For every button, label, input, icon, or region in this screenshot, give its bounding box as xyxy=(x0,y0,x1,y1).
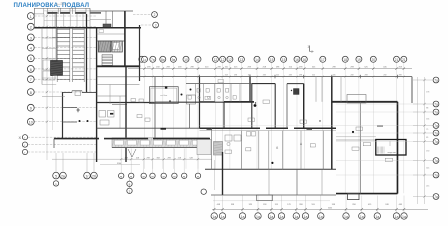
stair rail small xyxy=(101,55,103,67)
upper extension inner wall xyxy=(105,11,107,28)
svg-text:14: 14 xyxy=(255,58,259,62)
axis leader line left 4 xyxy=(34,47,96,49)
corridor top wall b xyxy=(224,101,254,103)
svg-text:150: 150 xyxy=(61,3,64,5)
axis circle left 8 xyxy=(27,89,34,96)
tag box j xyxy=(131,99,136,102)
svg-text:525: 525 xyxy=(312,74,315,76)
wc box 4 xyxy=(217,89,220,93)
bottom dim tick xyxy=(270,208,272,210)
top dim tick xyxy=(344,67,346,69)
right leader xyxy=(413,111,433,113)
junction verts xyxy=(195,84,197,103)
top dim tick xyxy=(185,67,187,69)
svg-text:5: 5 xyxy=(55,174,57,178)
svg-text:7а: 7а xyxy=(434,132,438,136)
svg-text:21: 21 xyxy=(395,58,399,62)
svg-text:215: 215 xyxy=(426,185,429,187)
sub axis vertical xyxy=(129,179,131,189)
wall x331.8 xyxy=(331,77,333,170)
left room dividers xyxy=(42,37,56,39)
left wing top edge xyxy=(34,7,90,9)
bottom dim tick xyxy=(257,208,259,210)
axis circle top 17а xyxy=(320,56,326,62)
left dim tick xyxy=(46,57,48,59)
left-bottom extension xyxy=(152,149,154,173)
svg-text:7а: 7а xyxy=(151,58,155,62)
wall x303.7 xyxy=(303,84,305,129)
axis circle left 9 xyxy=(27,104,34,111)
axis leader line left 10 xyxy=(34,121,96,123)
left dim tick xyxy=(46,68,48,70)
top band wall segment 3 xyxy=(76,12,87,14)
left wing vert x110 xyxy=(109,85,111,105)
left wing vert x120 xyxy=(119,96,121,128)
wc fixture 1 xyxy=(225,135,232,141)
svg-text:7а: 7а xyxy=(434,103,438,107)
top dim tick xyxy=(322,67,324,69)
axis circle top 12а xyxy=(212,56,218,62)
corridor bottom wall xyxy=(200,127,261,129)
right dim chain 1 xyxy=(417,77,419,204)
bottom extension line xyxy=(305,196,307,213)
svg-text:м: м xyxy=(120,174,122,178)
axis circle bottom xyxy=(359,213,365,219)
dark dot west xyxy=(79,120,81,122)
black bar fixture xyxy=(110,113,113,115)
bottom extension line xyxy=(242,196,244,213)
room block 1 right xyxy=(274,84,276,129)
axis circle top 21б xyxy=(401,56,407,62)
corridor threshold 3 xyxy=(307,128,313,130)
axis leader line left small 2 xyxy=(28,144,97,146)
grid extension line x=241.4 xyxy=(240,63,242,169)
wc circle 1 xyxy=(198,96,200,98)
grid extension line x=215.4 xyxy=(214,63,216,169)
bottom extension line xyxy=(320,196,322,213)
bottom dim tick xyxy=(221,208,223,210)
top dim tick xyxy=(395,67,397,69)
axis circle pair B2 xyxy=(91,172,98,179)
left wing mid divider y76.8 xyxy=(97,76,140,78)
right block bottom xyxy=(336,193,398,195)
top dim tick xyxy=(162,67,164,69)
machine room rect xyxy=(376,140,406,156)
svg-text:3460: 3460 xyxy=(328,207,332,209)
top-left small dim xyxy=(57,3,67,5)
svg-text:258: 258 xyxy=(383,74,386,76)
left dim tick xyxy=(46,78,48,80)
wall x189.5 mid xyxy=(189,104,191,128)
svg-text:218: 218 xyxy=(178,157,181,159)
axis circle left 5 xyxy=(27,55,34,62)
big room inner border xyxy=(151,88,177,102)
left dim tick xyxy=(46,36,48,38)
wall x224 upper xyxy=(223,102,225,128)
room block 2 top xyxy=(287,83,304,85)
gray room 2 hatch xyxy=(112,41,115,52)
bottom extension line xyxy=(295,196,297,213)
svg-text:1а: 1а xyxy=(294,215,298,219)
axis circle left 2 xyxy=(27,23,34,30)
svg-text:1а: 1а xyxy=(304,215,308,219)
top dim tick xyxy=(270,67,272,69)
svg-text:1а: 1а xyxy=(256,215,260,219)
left-bottom dim tick xyxy=(183,158,185,160)
right dim tick xyxy=(423,103,425,105)
small room box xyxy=(187,95,196,104)
svg-text:9: 9 xyxy=(30,107,32,111)
wc box 3 xyxy=(206,89,209,93)
corridor top wall c xyxy=(332,101,398,103)
axis circle top 12б xyxy=(220,56,226,62)
axis leader line left 8 xyxy=(34,91,96,93)
svg-text:150: 150 xyxy=(248,74,251,76)
bottom extension line xyxy=(270,196,272,213)
axis circle bottom xyxy=(211,213,217,219)
svg-text:7а: 7а xyxy=(434,79,438,83)
axis leader line left 6 xyxy=(34,68,96,70)
axis circle right xyxy=(433,77,439,83)
axis circle bottom xyxy=(239,213,245,219)
bottom extension line xyxy=(403,196,405,213)
tag box d xyxy=(225,150,232,153)
left-bottom extension xyxy=(120,149,122,173)
left-bottom extension xyxy=(183,149,185,173)
top band divider xyxy=(47,8,49,14)
left rooms wall xyxy=(41,28,43,85)
wall x62.5 lower xyxy=(62,92,64,139)
grid extension line x=322.8 xyxy=(322,63,324,169)
svg-text:7а: 7а xyxy=(434,111,438,115)
left wing divider y84.5 xyxy=(97,84,140,86)
lower strip verts xyxy=(268,169,270,195)
tiny marks corridor xyxy=(255,102,256,103)
svg-text:298: 298 xyxy=(399,74,402,76)
svg-text:м: м xyxy=(197,174,199,178)
gray room 1 xyxy=(98,41,111,52)
svg-text:1а: 1а xyxy=(360,215,364,219)
left dim tick xyxy=(46,107,48,109)
axis leader line left 1 xyxy=(34,15,96,17)
grid extension line x=345.2 xyxy=(344,63,346,194)
left dim tick xyxy=(46,26,48,28)
svg-text:м: м xyxy=(163,174,165,178)
right leader xyxy=(413,141,433,143)
room dividers lower xyxy=(241,131,243,170)
svg-text:12: 12 xyxy=(228,58,232,62)
tag box a xyxy=(248,118,255,121)
stair band A rail xyxy=(56,28,58,82)
axis circle top 14а xyxy=(254,56,260,62)
svg-text:17: 17 xyxy=(321,58,325,62)
small light rect top xyxy=(347,95,366,104)
axis circle bottom xyxy=(219,213,225,219)
left-bottom dim line xyxy=(52,158,212,160)
upper cells verts right xyxy=(315,77,317,102)
axis circle left small 3 xyxy=(22,149,27,154)
wc circle 4 xyxy=(226,96,228,98)
right dim tick xyxy=(423,79,425,81)
svg-text:м: м xyxy=(173,174,175,178)
bottom dim tick xyxy=(280,208,282,210)
axis circle right xyxy=(433,194,439,200)
bottom dim tick xyxy=(395,208,397,210)
svg-text:18: 18 xyxy=(343,58,347,62)
top dim tick xyxy=(358,67,360,69)
axis circle left-bottom xyxy=(161,173,166,178)
svg-text:358: 358 xyxy=(157,157,160,159)
right leader xyxy=(413,125,433,127)
junction mid wall y102.2 xyxy=(155,101,254,103)
tag box h xyxy=(137,115,142,118)
big room outline xyxy=(150,87,179,104)
tag box b xyxy=(300,120,307,123)
small box mid-left xyxy=(75,91,81,96)
wall x155 xyxy=(154,77,156,139)
right dim tick xyxy=(423,159,425,161)
top dim tick xyxy=(256,67,258,69)
svg-text:20: 20 xyxy=(371,58,375,62)
section mark xyxy=(309,46,311,52)
axis circle top 1c-left xyxy=(139,56,145,62)
grid extension line x=198 xyxy=(197,63,199,169)
top cells mid line xyxy=(44,10,90,12)
axis circle top 11а xyxy=(195,56,201,62)
axis circle right xyxy=(433,158,439,164)
grid extension line x=144.5 xyxy=(144,63,146,169)
bottom extension line xyxy=(213,196,215,213)
svg-text:4: 4 xyxy=(30,46,32,50)
svg-text:75: 75 xyxy=(426,129,428,131)
room block 1 top xyxy=(252,83,275,85)
wc box 2 xyxy=(197,89,200,93)
notch box xyxy=(257,195,273,201)
left-bottom dim tick xyxy=(130,158,132,160)
level triangle 1 xyxy=(276,147,278,149)
top dim tick xyxy=(240,67,242,69)
svg-text:3: 3 xyxy=(30,36,32,40)
svg-text:7а: 7а xyxy=(434,159,438,163)
axis circle top 10а xyxy=(183,56,189,62)
left room divider y96b xyxy=(42,96,65,98)
left dim tick xyxy=(46,91,48,93)
bottom dim tick xyxy=(345,208,347,210)
svg-text:21: 21 xyxy=(402,58,406,62)
top dim tick xyxy=(403,67,405,69)
axis circle bottom xyxy=(318,213,324,219)
axis circle bottom xyxy=(255,213,261,219)
wc box 1 xyxy=(188,96,191,100)
cluster ticks xyxy=(55,153,57,173)
axis circle top 20а xyxy=(370,56,376,62)
left wing wall y102.5 xyxy=(97,102,155,104)
dark hatched block xyxy=(51,61,63,76)
axis leader line left 3 xyxy=(34,36,96,38)
left dim tick xyxy=(46,121,48,123)
axis circle left 7 xyxy=(27,76,34,83)
right leader xyxy=(413,103,433,105)
h-line y140 right xyxy=(336,139,376,141)
h-line y137 right xyxy=(336,136,376,138)
corridor threshold 1 xyxy=(161,128,167,130)
svg-text:1а: 1а xyxy=(221,215,225,219)
svg-text:м: м xyxy=(183,174,185,178)
axis circle right xyxy=(433,139,439,145)
axis circle right xyxy=(433,109,439,115)
axis circle left-bottom xyxy=(150,173,155,178)
stair band B rail xyxy=(72,28,74,82)
axis circle pair B1 xyxy=(84,172,91,179)
bottom dim line faint xyxy=(213,200,330,202)
room tag 139 xyxy=(385,158,392,161)
dark dot x87 xyxy=(87,120,89,122)
grid extension line x=373.3 xyxy=(372,63,374,194)
svg-text:12: 12 xyxy=(214,58,218,62)
axis circle left-bottom xyxy=(195,173,200,178)
gray room 2 xyxy=(112,41,123,52)
svg-text:1а: 1а xyxy=(402,215,406,219)
grid extension line x=152.8 xyxy=(152,63,154,169)
dot left of room xyxy=(165,86,167,88)
right dim tick xyxy=(423,174,425,176)
axis leader line left small 3 xyxy=(28,151,97,153)
left edge upper xyxy=(33,8,35,27)
left-bottom dim tick xyxy=(173,158,175,160)
axis circle top 15б xyxy=(281,56,287,62)
top dim tick xyxy=(221,67,223,69)
door swing zigzag xyxy=(128,149,132,157)
axis circle bottom xyxy=(401,213,407,219)
axis circle top 12в xyxy=(227,56,233,62)
svg-text:16: 16 xyxy=(295,58,299,62)
axis circle left-bottom xyxy=(119,173,124,178)
svg-text:2: 2 xyxy=(154,13,156,17)
left small room a xyxy=(43,60,55,70)
axis circle top 7а xyxy=(150,56,156,62)
axis circle top 21а xyxy=(394,56,400,62)
room tag mid xyxy=(352,147,359,150)
axis circle bottom xyxy=(393,213,399,219)
svg-text:7: 7 xyxy=(30,78,32,82)
leader to circle 3r xyxy=(141,24,152,26)
room tag 138 xyxy=(363,143,370,146)
small fixture b xyxy=(108,111,115,118)
bottom extension line xyxy=(361,196,363,213)
dot right of room xyxy=(181,94,183,96)
left dim chain line xyxy=(46,11,48,160)
axis circle right xyxy=(433,130,439,136)
axis leader line left 2 xyxy=(34,26,96,28)
junction corner hatch lines xyxy=(214,142,223,144)
axis circle left-bottom xyxy=(172,173,177,178)
upper extension top edge xyxy=(90,10,133,12)
svg-text:7а: 7а xyxy=(434,140,438,144)
west stub y122 xyxy=(63,121,78,123)
svg-text:10: 10 xyxy=(29,121,33,125)
upper small dark box xyxy=(103,24,111,27)
corridor bottom wall thin xyxy=(200,130,337,132)
svg-text:298: 298 xyxy=(147,157,150,159)
svg-text:445: 445 xyxy=(333,74,336,76)
axis circle left small 2 xyxy=(22,142,27,147)
machine room stem xyxy=(389,141,391,146)
left-bottom dim tick xyxy=(151,158,153,160)
svg-text:г: г xyxy=(24,150,25,154)
axis leader line left 5 xyxy=(34,57,96,59)
svg-text:м: м xyxy=(151,174,153,178)
svg-text:2: 2 xyxy=(30,26,32,30)
upper room tiny box xyxy=(99,30,104,33)
top band wall segment 4 xyxy=(90,12,101,14)
left wing divider y96 xyxy=(97,95,126,97)
bottom dim tick xyxy=(213,208,215,210)
svg-text:2б: 2б xyxy=(92,174,96,178)
top dim tick xyxy=(303,67,305,69)
axis circle left-bottom xyxy=(182,173,187,178)
corridor threshold 2 xyxy=(207,128,213,130)
left wing corridor wall y128 xyxy=(97,127,200,129)
west stub y107.5 xyxy=(63,107,78,109)
svg-text:418: 418 xyxy=(136,157,139,159)
svg-text:85: 85 xyxy=(426,137,428,139)
top band wall segment 2 xyxy=(61,12,71,14)
grid extension line x=297 xyxy=(296,63,298,169)
left-bottom dim tick xyxy=(197,158,199,160)
axis circle bottom xyxy=(302,213,308,219)
axis circle top 1c xyxy=(142,56,148,62)
left-bottom extension xyxy=(173,149,175,173)
fixture cluster 2 xyxy=(247,132,251,137)
svg-text:208: 208 xyxy=(351,74,354,76)
axis circle left 3 xyxy=(27,34,34,41)
junction corner room xyxy=(197,139,211,154)
axis circle right-of-top 2 xyxy=(152,12,158,18)
tag above wall a xyxy=(205,96,211,99)
top dim tick xyxy=(372,67,374,69)
axis circle left-bottom xyxy=(129,173,134,178)
top band wall segment 1 xyxy=(48,12,58,14)
wc box 5 xyxy=(226,89,229,93)
tag box k xyxy=(139,99,144,102)
svg-text:16: 16 xyxy=(302,58,306,62)
tag box g xyxy=(246,148,251,151)
bottom dim tick xyxy=(295,208,297,210)
axis circle pair A2 xyxy=(60,172,67,179)
right dim tick xyxy=(423,132,425,134)
svg-text:190: 190 xyxy=(426,151,429,153)
dark dot corridor xyxy=(271,162,273,164)
axis circle left small 1 xyxy=(22,135,27,140)
dark dot right block xyxy=(352,131,354,133)
axis circle top 8а xyxy=(160,56,166,62)
axis leader line left small 1 xyxy=(28,136,97,138)
dark dot corridor mid xyxy=(254,104,257,107)
axis circle right-of-top 3 xyxy=(153,22,159,28)
wing top edge xyxy=(140,76,412,78)
left-bottom extension xyxy=(197,149,199,173)
small fixture a xyxy=(99,111,106,118)
corridor top wall a xyxy=(200,101,216,103)
svg-text:2в: 2в xyxy=(61,174,65,178)
axis circle pair A1 xyxy=(53,172,60,179)
grid extension line x=222.6 xyxy=(222,63,224,169)
lower strip left wall xyxy=(222,152,224,195)
wing right upper wall xyxy=(411,77,413,103)
svg-text:298: 298 xyxy=(299,74,302,76)
tag box e xyxy=(356,127,363,130)
svg-text:1а: 1а xyxy=(280,215,284,219)
